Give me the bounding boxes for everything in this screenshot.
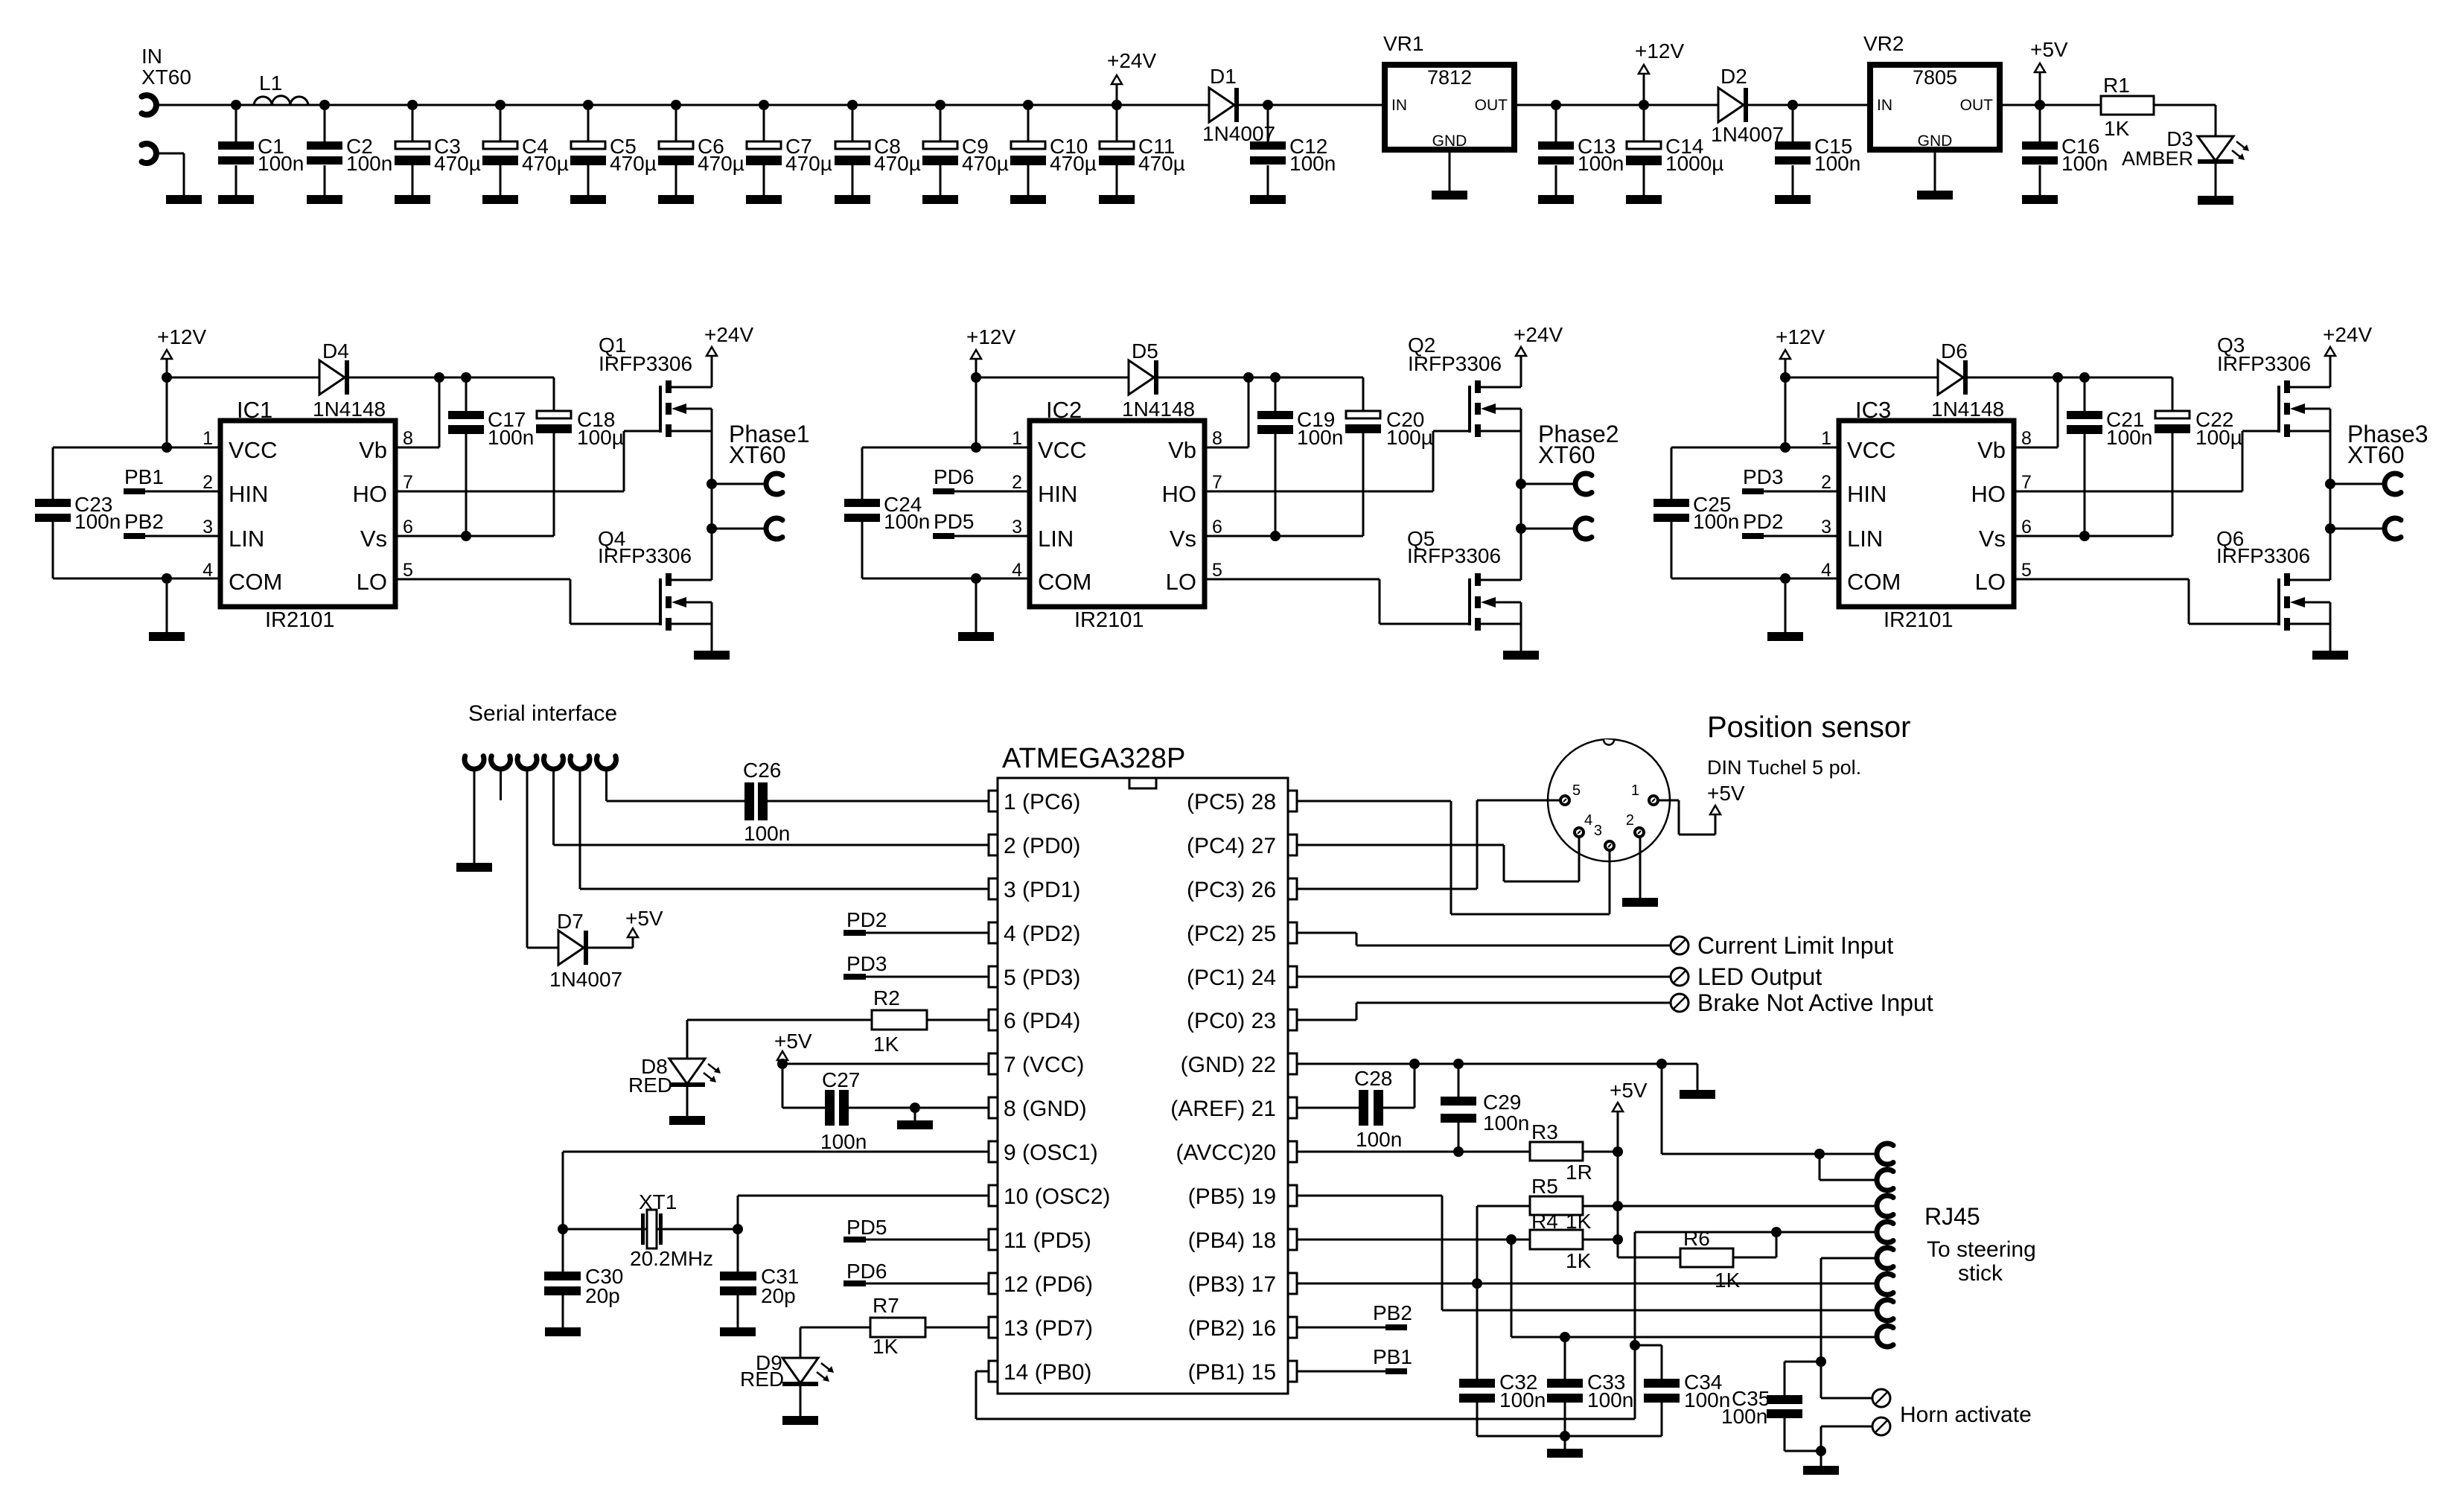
svg-text:20p: 20p: [585, 1284, 620, 1307]
svg-text:100n: 100n: [1578, 152, 1624, 175]
ground C27: [897, 1108, 933, 1129]
node +12V junction to D4: [162, 372, 172, 383]
svg-text:(PB3) 17: (PB3) 17: [1188, 1272, 1276, 1297]
svg-text:Serial interface: Serial interface: [468, 701, 617, 726]
svg-text:IRFP3306: IRFP3306: [1407, 544, 1501, 567]
svg-text:2 (PD0): 2 (PD0): [1004, 834, 1080, 858]
node +12V junction to VCC: [162, 442, 172, 453]
wire C35 top branch: [1785, 1362, 1821, 1395]
connector DIN body: [1548, 739, 1670, 861]
svg-text:(PB4) 18: (PB4) 18: [1188, 1228, 1276, 1253]
svg-text:IRFP3306: IRFP3306: [2217, 352, 2311, 375]
node phase XT60 top: [1516, 479, 1526, 489]
svg-text:OUT: OUT: [1475, 97, 1508, 114]
transistor Q1 IRFP3306: [599, 334, 712, 437]
connector IN XT60: [141, 45, 191, 163]
wire serial pin6 to C26: [607, 769, 745, 801]
svg-text:R2: R2: [873, 986, 900, 1009]
svg-text:100n: 100n: [820, 1130, 867, 1153]
svg-text:C26: C26: [743, 759, 781, 782]
svg-text:1N4007: 1N4007: [1711, 123, 1784, 146]
svg-text:R3: R3: [1531, 1120, 1558, 1143]
wire +5V down to C27: [782, 1064, 825, 1108]
svg-text:1: 1: [1631, 782, 1639, 799]
wire pin5 LO to gate: [2014, 579, 2277, 624]
svg-text:RJ45: RJ45: [1924, 1203, 1980, 1230]
wire OSC2: [738, 1196, 989, 1272]
svg-text:Vb: Vb: [359, 437, 387, 463]
svg-text:+24V: +24V: [1107, 49, 1156, 72]
svg-text:470µ: 470µ: [1050, 152, 1097, 175]
svg-text:8: 8: [2021, 428, 2032, 449]
wire C35 bottom branch: [1785, 1418, 1821, 1451]
ground IC2 COM: [958, 578, 994, 641]
input stub PD5: [843, 1216, 989, 1243]
node horn C35: [1816, 1356, 1826, 1367]
wire phase node: [2329, 409, 2332, 580]
capacitor C27 100n: [820, 1068, 867, 1153]
gate driver IC2 IR2101: [1012, 397, 1222, 632]
wire IN to C1: [159, 104, 236, 106]
svg-text:Vb: Vb: [1168, 437, 1196, 463]
connector RJ45 pin 3: [1877, 1196, 1893, 1216]
svg-text:100n: 100n: [488, 426, 534, 449]
ground D9: [782, 1386, 818, 1425]
diode D5 1N4148: [976, 339, 1195, 421]
input stub PD6: [843, 1260, 989, 1286]
gate driver IC1 IR2101: [202, 397, 413, 632]
connector RJ45 pin 2: [1877, 1170, 1893, 1190]
svg-text:(PC4) 27: (PC4) 27: [1187, 834, 1276, 858]
wire pin7 HO to gate: [2014, 431, 2277, 491]
svg-text:LO: LO: [1975, 569, 2006, 595]
capacitor C8: [835, 100, 921, 204]
svg-text:IRFP3306: IRFP3306: [599, 352, 692, 375]
svg-text:+5V: +5V: [625, 907, 663, 930]
wire pin8 Vb: [395, 377, 439, 447]
svg-text:100n: 100n: [1693, 510, 1739, 533]
svg-text:470µ: 470µ: [698, 152, 744, 175]
svg-text:(PB1) 15: (PB1) 15: [1188, 1360, 1276, 1385]
wire pin17 PB3 to RJ45 pin6: [1297, 1283, 1877, 1285]
IC ATMEGA328P: [989, 743, 1297, 1394]
svg-text:1000µ: 1000µ: [1665, 152, 1723, 175]
ground C31: [720, 1327, 756, 1336]
ground Q6 source: [2312, 602, 2348, 660]
capacitor C6: [658, 100, 744, 204]
node COM junction: [1780, 573, 1790, 584]
transistor Q5 IRFP3306: [1407, 527, 1521, 631]
svg-text:IN: IN: [1391, 97, 1407, 114]
svg-text:5: 5: [403, 560, 413, 581]
svg-text:COM: COM: [1038, 569, 1091, 595]
svg-text:COM: COM: [1847, 569, 1901, 595]
wire +5V to pin7 VCC: [782, 1063, 989, 1065]
capacitor C26 100n: [743, 759, 790, 845]
svg-text:100n: 100n: [1587, 1388, 1633, 1411]
ground D3: [2198, 164, 2233, 205]
svg-text:13 (PD7): 13 (PD7): [1004, 1316, 1093, 1341]
wire R1 to D3: [2154, 105, 2216, 136]
wire phase node: [711, 409, 713, 580]
node +5V R5: [1613, 1201, 1623, 1211]
wire serial pin5 to PD1: [580, 769, 989, 889]
wire GND to RJ45 pin1: [1662, 1064, 1877, 1154]
svg-text:HO: HO: [353, 481, 388, 507]
svg-text:100n: 100n: [884, 510, 930, 533]
capacitor C24 100n: [844, 447, 1030, 578]
terminal Horn activate 1: [1872, 1389, 1890, 1407]
svg-text:1R: 1R: [1566, 1161, 1592, 1184]
svg-text:(PC5) 28: (PC5) 28: [1187, 790, 1276, 814]
node AVCC C29: [1453, 1146, 1464, 1157]
svg-text:(PC1) 24: (PC1) 24: [1187, 966, 1276, 990]
capacitor C21 100n: [2067, 377, 2152, 536]
capacitor C10: [1010, 100, 1097, 204]
svg-text:2: 2: [1821, 472, 1831, 493]
svg-text:C28: C28: [1354, 1067, 1392, 1090]
wire pin6 Vs: [2014, 535, 2172, 538]
svg-text:+12V: +12V: [1776, 325, 1825, 348]
svg-text:PD6: PD6: [846, 1260, 887, 1283]
resistor R3 1R: [1530, 1120, 1618, 1184]
svg-text:+24V: +24V: [2323, 323, 2372, 346]
wire OSC1: [563, 1152, 989, 1272]
svg-text:IRFP3306: IRFP3306: [2216, 544, 2310, 567]
capacitor C13: [1538, 100, 1624, 204]
svg-text:LED Output: LED Output: [1697, 963, 1822, 990]
svg-text:1N4148: 1N4148: [313, 398, 386, 421]
node GND C29: [1453, 1059, 1464, 1069]
capacitor C9: [922, 100, 1009, 204]
capacitor C22 100µ: [2155, 377, 2242, 536]
power flag +12V (IC3 block): [1776, 325, 1825, 447]
wire serial pin2 stub: [500, 769, 502, 800]
node +5V AVCC: [1613, 1146, 1623, 1157]
svg-text:7: 7: [1212, 472, 1222, 493]
svg-text:COM: COM: [229, 569, 282, 595]
svg-text:6: 6: [1212, 517, 1222, 538]
node COM junction: [971, 573, 981, 584]
svg-text:Vs: Vs: [360, 526, 387, 552]
connector serial pin 4: [544, 756, 564, 769]
svg-text:3: 3: [1012, 517, 1022, 538]
svg-text:HIN: HIN: [229, 481, 268, 507]
wire D4 cathode rail: [349, 377, 554, 379]
svg-text:stick: stick: [1958, 1261, 2003, 1286]
svg-text:Position sensor: Position sensor: [1707, 711, 1910, 744]
svg-text:LO: LO: [1166, 569, 1196, 595]
resistor R4 1K: [1511, 1210, 1618, 1272]
wire VR2 OUT to R1: [2000, 104, 2101, 106]
wire C26 to PC6: [768, 800, 989, 803]
svg-text:LIN: LIN: [1038, 526, 1074, 552]
svg-text:20.2MHz: 20.2MHz: [630, 1247, 713, 1270]
input stub PB2: [124, 510, 220, 539]
capacitor C25 100n: [1653, 447, 1839, 578]
node GND to RJ45: [1656, 1059, 1667, 1069]
DIN pin 3: [1594, 823, 1614, 850]
terminal LED Output: [1671, 963, 1822, 990]
svg-text:470µ: 470µ: [1138, 152, 1185, 175]
capacitor C15: [1775, 100, 1860, 204]
resistor R2 1K: [872, 986, 989, 1056]
svg-text:D4: D4: [322, 339, 349, 363]
ground horn: [1803, 1451, 1839, 1475]
node +5V R4: [1613, 1234, 1623, 1245]
wire RJ45 pin5 to horn: [1821, 1258, 1877, 1398]
svg-text:1N4148: 1N4148: [1931, 398, 2004, 421]
wire IN- to ground: [159, 153, 184, 195]
ground GND rail: [1680, 1090, 1715, 1099]
node Vs junction: [1270, 531, 1281, 541]
svg-text:10 (OSC2): 10 (OSC2): [1004, 1184, 1110, 1209]
svg-text:8: 8: [403, 428, 413, 449]
ground Q4 source: [694, 602, 730, 660]
connector RJ45 pin 6: [1877, 1274, 1893, 1295]
svg-text:IRFP3306: IRFP3306: [1408, 352, 1502, 375]
svg-text:XT1: XT1: [639, 1190, 677, 1213]
node XT1 left: [558, 1224, 568, 1234]
LED D3 AMBER: [2122, 127, 2249, 170]
ground serial: [456, 863, 492, 872]
wire pin8 Vb: [2014, 377, 2058, 447]
capacitor C28 100n: [1297, 1064, 1415, 1151]
ground C30: [545, 1327, 581, 1336]
resistor R1 1K: [2101, 74, 2154, 140]
svg-text:7: 7: [2021, 472, 2032, 493]
svg-text:1N4148: 1N4148: [1122, 398, 1195, 421]
svg-text:IR2101: IR2101: [1884, 608, 1954, 632]
svg-text:Vb: Vb: [1977, 437, 2006, 463]
svg-text:ATMEGA328P: ATMEGA328P: [1002, 743, 1185, 774]
svg-text:+12V: +12V: [1635, 39, 1684, 63]
svg-text:(AREF) 21: (AREF) 21: [1170, 1097, 1276, 1121]
svg-text:9 (OSC1): 9 (OSC1): [1004, 1141, 1098, 1165]
svg-text:PB1: PB1: [1373, 1345, 1412, 1368]
node phase XT60 top: [2325, 479, 2335, 489]
svg-text:DIN Tuchel 5 pol.: DIN Tuchel 5 pol.: [1707, 756, 1861, 779]
node COM junction: [162, 573, 172, 584]
power flag +24V (Q3): [2323, 323, 2372, 387]
svg-text:VCC: VCC: [1038, 437, 1086, 463]
node C35 bottom: [1816, 1446, 1826, 1456]
svg-text:D2: D2: [1720, 65, 1747, 88]
connector serial pin 5: [570, 756, 590, 769]
power flag +5V (logic rail): [1610, 1079, 1648, 1257]
svg-text:D6: D6: [1941, 339, 1968, 363]
svg-text:3 (PD1): 3 (PD1): [1004, 878, 1080, 902]
wire pin6 Vs: [395, 535, 554, 538]
DIN pin 5: [1560, 782, 1581, 805]
svg-text:Current Limit Input: Current Limit Input: [1697, 932, 1893, 959]
svg-text:2: 2: [1012, 472, 1022, 493]
svg-text:PD6: PD6: [934, 465, 974, 488]
wire C34 branch: [1635, 1345, 1662, 1379]
svg-text:100µ: 100µ: [2195, 426, 2242, 449]
node phase XT60 bottom: [2325, 523, 2335, 534]
capacitor C33 100n: [1547, 1337, 1633, 1436]
svg-text:GND: GND: [1918, 133, 1953, 150]
capacitor C11: [1099, 100, 1185, 204]
svg-text:XT60: XT60: [729, 441, 785, 468]
svg-text:7805: 7805: [1913, 66, 1957, 89]
svg-text:4: 4: [1012, 560, 1022, 581]
connector RJ45 pin 8: [1877, 1326, 1893, 1347]
svg-text:HIN: HIN: [1038, 481, 1077, 507]
svg-text:To steering: To steering: [1927, 1237, 2036, 1262]
svg-text:+5V: +5V: [1610, 1079, 1648, 1102]
wire PB0 net to RJ45 pin4: [976, 1232, 1877, 1419]
input stub PB1: [124, 465, 220, 494]
svg-text:14 (PB0): 14 (PB0): [1004, 1360, 1091, 1385]
svg-text:PD2: PD2: [1743, 510, 1783, 533]
svg-text:D7: D7: [557, 910, 584, 933]
wire PC4 to DIN pin4: [1297, 838, 1579, 881]
transistor Q6 IRFP3306: [2216, 527, 2330, 631]
capacitor C20 100µ: [1345, 377, 1433, 536]
wire pin18 PB4: [1297, 1239, 1511, 1241]
diode D2 1N4007: [1711, 65, 1784, 146]
ground IC1 COM: [149, 578, 185, 641]
resistor R5 1K: [1477, 1175, 1618, 1215]
wire cap ground rail: [1477, 1435, 1662, 1438]
svg-text:1: 1: [1821, 428, 1831, 449]
node XT1 right: [733, 1224, 743, 1234]
LED D8 RED: [628, 1055, 721, 1097]
capacitor C32 100n: [1459, 1371, 1546, 1436]
svg-text:(GND) 22: (GND) 22: [1181, 1053, 1276, 1077]
LED D9 RED: [740, 1351, 834, 1391]
node PB3 R5: [1472, 1278, 1482, 1289]
wire serial pin4 to PD0: [554, 769, 989, 845]
svg-text:L1: L1: [259, 71, 282, 95]
power flag +24V (top): [1107, 49, 1156, 105]
wire serial pin3 to D7: [527, 769, 558, 948]
svg-text:R5: R5: [1531, 1175, 1558, 1198]
capacitor C7: [746, 100, 832, 204]
svg-text:(PC3) 26: (PC3) 26: [1187, 878, 1276, 902]
wire phase node: [1520, 409, 1522, 580]
wire PC1 to LED Output: [1297, 976, 1671, 978]
transistor Q3 IRFP3306: [2217, 334, 2330, 437]
svg-text:100n: 100n: [744, 822, 790, 845]
svg-text:RED: RED: [628, 1074, 672, 1097]
crystal XT1 20.2MHz: [630, 1190, 713, 1270]
capacitor C3: [395, 100, 481, 204]
svg-text:IR2101: IR2101: [265, 608, 335, 632]
svg-text:D1: D1: [1210, 65, 1237, 88]
input stub PD3: [1742, 465, 1839, 494]
svg-text:4: 4: [1821, 560, 1831, 581]
node PB4 R4: [1506, 1234, 1517, 1245]
node +12V junction to D6: [1780, 372, 1790, 383]
wire pin5 LO to gate: [1205, 579, 1468, 624]
svg-text:6: 6: [403, 517, 413, 538]
svg-text:1: 1: [1012, 428, 1022, 449]
svg-text:100n: 100n: [1356, 1128, 1402, 1151]
connector RJ45 pin 4: [1877, 1222, 1893, 1243]
connector serial pin 1: [465, 756, 484, 769]
capacitor C30 20p: [544, 1265, 623, 1327]
svg-text:5: 5: [1572, 782, 1581, 799]
svg-text:100µ: 100µ: [1386, 426, 1433, 449]
node phase XT60 bottom: [1516, 523, 1526, 534]
svg-text:6: 6: [2021, 517, 2032, 538]
capacitor C12: [1250, 100, 1336, 204]
DIN pin 1: [1631, 782, 1658, 805]
power flag +24V (Q2): [1514, 323, 1563, 387]
svg-text:5: 5: [2021, 560, 2032, 581]
ground C32-C34: [1547, 1436, 1583, 1458]
svg-text:+5V: +5V: [2030, 38, 2068, 61]
wire serial pin1 to ground: [473, 769, 476, 863]
svg-text:PD3: PD3: [1743, 465, 1783, 488]
node C17 rail junction: [1270, 372, 1281, 383]
svg-text:(PB2) 16: (PB2) 16: [1188, 1316, 1276, 1341]
node C17 rail junction: [461, 372, 471, 383]
svg-text:1N4007: 1N4007: [549, 968, 622, 991]
connector serial pin 6: [596, 756, 616, 769]
svg-text:5 (PD3): 5 (PD3): [1004, 966, 1080, 990]
inductor L1: [254, 71, 308, 105]
svg-text:1K: 1K: [1566, 1249, 1592, 1272]
power flag +12V (top): [1635, 39, 1684, 105]
svg-text:+12V: +12V: [966, 325, 1015, 348]
svg-text:100n: 100n: [346, 152, 392, 175]
ground IC3 COM: [1767, 578, 1803, 641]
capacitor C4: [482, 100, 569, 204]
ground IN: [166, 195, 202, 204]
ground DIN: [1622, 898, 1658, 907]
svg-text:100n: 100n: [1483, 1111, 1529, 1135]
wire +5V line to RJ45 pin3: [1618, 1205, 1877, 1208]
ground VR1: [1432, 150, 1467, 200]
svg-text:100n: 100n: [1289, 152, 1336, 175]
power flag +24V (Q1): [704, 323, 753, 387]
svg-text:IN: IN: [141, 45, 162, 68]
svg-text:100n: 100n: [74, 510, 121, 533]
svg-text:(AVCC)20: (AVCC)20: [1176, 1141, 1276, 1165]
ground D8: [669, 1087, 705, 1125]
svg-text:HIN: HIN: [1847, 481, 1887, 507]
connector Phase3 XT60: [2330, 421, 2428, 539]
capacitor C2: [307, 100, 392, 204]
node PB0 C34 branch: [1630, 1340, 1640, 1350]
svg-text:7: 7: [403, 472, 413, 493]
capacitor C18 100µ: [536, 377, 624, 536]
wire DIN pin2 to ground: [1639, 838, 1642, 898]
svg-text:R7: R7: [873, 1294, 899, 1317]
input stub PB2: [1297, 1301, 1412, 1330]
wire pin5 LO to gate: [395, 579, 659, 624]
node R6 pullup: [1771, 1227, 1782, 1237]
capacitor C17 100n: [448, 377, 534, 536]
svg-text:RED: RED: [740, 1368, 784, 1391]
svg-text:7812: 7812: [1427, 66, 1472, 89]
wire PC3 to DIN pin5: [1297, 800, 1560, 889]
svg-text:7 (VCC): 7 (VCC): [1004, 1053, 1084, 1077]
svg-text:1K: 1K: [873, 1335, 899, 1358]
regulator VR1 7812: [1383, 32, 1514, 150]
wire PC0 to Brake input: [1297, 1003, 1671, 1020]
svg-text:1K: 1K: [1715, 1269, 1741, 1292]
svg-text:Vs: Vs: [1979, 526, 2006, 552]
svg-text:IN: IN: [1877, 97, 1892, 114]
wire D6 cathode rail: [1968, 377, 2172, 379]
power flag +5V (top): [2030, 38, 2068, 105]
svg-text:XT60: XT60: [1538, 441, 1595, 468]
